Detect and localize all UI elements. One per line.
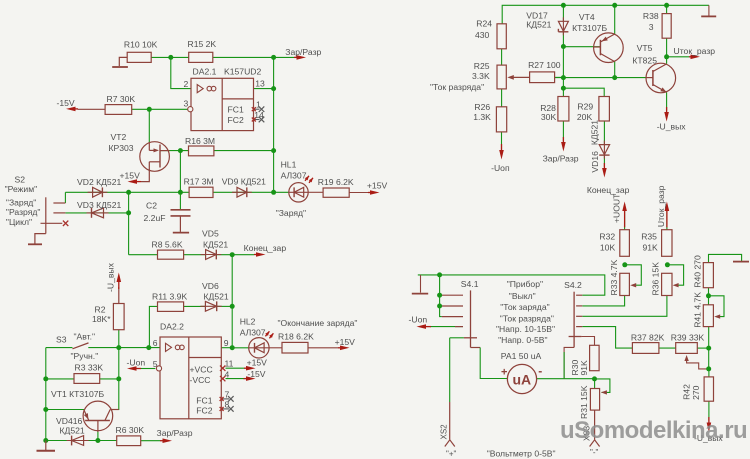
svg-text:+: + bbox=[501, 367, 507, 379]
svg-text:6: 6 bbox=[153, 338, 158, 348]
svg-text:"Ток разряда": "Ток разряда" bbox=[430, 82, 484, 92]
wire R27-VT4c-VT5b row bbox=[555, 77, 647, 79]
svg-text:R40 270: R40 270 bbox=[692, 255, 702, 288]
R36 wiper arrow bbox=[673, 283, 679, 287]
node R30-R31 bbox=[592, 376, 597, 381]
net +15V right of R19 bbox=[367, 181, 388, 195]
label S2 bbox=[5, 174, 41, 227]
node VT5 collector bbox=[664, 54, 669, 59]
svg-text:R18 6.2K: R18 6.2K bbox=[278, 332, 314, 342]
resistor R24 bbox=[475, 18, 506, 49]
wire main bus bbox=[65, 191, 289, 193]
wire S4.1 arm1 stub bbox=[440, 294, 442, 296]
svg-text:R19 6.2K: R19 6.2K bbox=[318, 177, 354, 187]
wire S4.1 arm6 bbox=[450, 337, 464, 339]
svg-text:3.3K: 3.3K bbox=[472, 71, 490, 81]
wire S3 vertical left rail bbox=[45, 348, 47, 441]
wire R36 wiper jog bbox=[667, 265, 683, 285]
wire R40 chassis bar bbox=[733, 261, 749, 263]
wire S3 left terminal bbox=[46, 347, 73, 349]
svg-text:9: 9 bbox=[224, 338, 229, 348]
wire R29 top net bbox=[563, 88, 604, 96]
svg-text:R32: R32 bbox=[599, 232, 615, 242]
label Вольтметр bbox=[487, 449, 556, 459]
resistor R7 bbox=[105, 94, 135, 114]
wire R24-R25 bbox=[501, 49, 503, 65]
resistor R41 (pot) bbox=[692, 292, 713, 328]
svg-text:1.3K: 1.3K bbox=[473, 112, 491, 122]
resistor R26 bbox=[473, 102, 506, 132]
switch S3 bbox=[56, 332, 98, 362]
resistor R19 bbox=[318, 177, 354, 197]
wire R31 bottom to XS3 bbox=[594, 410, 596, 440]
svg-text:АЛ307: АЛ307 bbox=[240, 327, 266, 337]
svg-text:VD16: VD16 bbox=[590, 151, 600, 173]
svg-text:Uток_разр: Uток_разр bbox=[656, 185, 666, 227]
wire R28 bottom bbox=[562, 121, 564, 141]
svg-text:R36 15K: R36 15K bbox=[651, 262, 661, 296]
wire VT4 collector drop bbox=[614, 62, 616, 78]
wire R2 bottom to node bbox=[118, 330, 120, 348]
wire VD6 to vertical bbox=[217, 305, 233, 307]
connector XS3 pin - bbox=[583, 425, 600, 457]
node VD17 bottom bbox=[561, 44, 566, 49]
wire right column verticals bbox=[708, 327, 710, 377]
meter PA1 50uA bbox=[501, 351, 543, 393]
svg-text:3: 3 bbox=[649, 22, 654, 32]
wire meter to R30 node bbox=[537, 378, 595, 380]
svg-text:VT4: VT4 bbox=[579, 12, 595, 22]
wire S4.1 contacts vertical bbox=[440, 275, 442, 317]
svg-text:R41 4.7K: R41 4.7K bbox=[692, 292, 702, 328]
svg-text:VT1 КТ3107Б: VT1 КТ3107Б bbox=[51, 389, 105, 399]
svg-text:-Uоп: -Uоп bbox=[491, 163, 510, 173]
svg-text:FC1: FC1 bbox=[228, 105, 244, 115]
svg-text:-: - bbox=[538, 364, 542, 378]
resistor R39 (pot) bbox=[671, 333, 705, 354]
transistor VT1 KT3107B bbox=[51, 389, 119, 432]
net Зар/Разр top bbox=[285, 47, 321, 60]
svg-text:HL1: HL1 bbox=[281, 160, 297, 170]
resistor R3 bbox=[74, 363, 103, 384]
svg-text:-15V: -15V bbox=[57, 98, 75, 108]
svg-text:"Ток заряда": "Ток заряда" bbox=[500, 302, 549, 312]
diode VD2 bbox=[77, 177, 121, 197]
wire VT2 gate vertical bbox=[148, 109, 150, 143]
net -Uon at pin5 bbox=[127, 357, 146, 371]
node S3 junctions bbox=[116, 345, 151, 350]
wire R31 top lead bbox=[594, 379, 596, 389]
svg-text:PA1 50 uA: PA1 50 uA bbox=[501, 351, 542, 361]
net -U_вых bottom bbox=[694, 417, 723, 443]
svg-text:270: 270 bbox=[691, 385, 701, 400]
svg-text:91K: 91K bbox=[643, 243, 659, 253]
svg-text:R27 100: R27 100 bbox=[528, 60, 561, 70]
op-amp DA2.1 K157UD2 bbox=[184, 67, 265, 131]
net +15V right of R18 bbox=[335, 337, 356, 350]
wire XS2 drop bbox=[449, 338, 451, 440]
svg-text:"Напр. 0-5В": "Напр. 0-5В" bbox=[498, 335, 547, 345]
diode VD16 bbox=[590, 120, 610, 173]
node S4.1 junctions bbox=[437, 272, 442, 308]
wire R25-R26 bbox=[501, 89, 503, 107]
svg-text:Зар/Разр: Зар/Разр bbox=[543, 154, 579, 164]
wire node top output vertical bbox=[273, 57, 275, 192]
resistor R36 (pot) bbox=[651, 262, 672, 296]
resistor R17 bbox=[184, 176, 214, 197]
svg-text:VD2 КД521: VD2 КД521 bbox=[77, 177, 121, 187]
resistor R8 bbox=[152, 240, 184, 260]
resistor R32 bbox=[599, 230, 629, 257]
svg-text:R37 82K: R37 82K bbox=[631, 333, 665, 343]
svg-text:+15V: +15V bbox=[335, 337, 356, 347]
svg-text:АЛ307: АЛ307 bbox=[281, 171, 307, 181]
wire Uток_разр stub bbox=[667, 56, 689, 58]
wire VD16 bottom bbox=[603, 156, 605, 167]
wire S4.1 arm2 stub bbox=[440, 305, 442, 307]
resistor R31 (pot) bbox=[579, 385, 600, 419]
svg-text:R16 3M: R16 3M bbox=[185, 136, 215, 146]
net +UOUT bbox=[611, 193, 627, 227]
wire R16 right bbox=[214, 150, 274, 152]
pin 11 cross bbox=[220, 366, 225, 371]
wire S2 Заряд jog bbox=[64, 192, 66, 203]
wire R42 bottom bbox=[708, 401, 710, 420]
svg-text:"Вольтметр 0-5В": "Вольтметр 0-5В" bbox=[487, 449, 556, 459]
svg-text:430: 430 bbox=[475, 30, 490, 40]
svg-text:"Цикл": "Цикл" bbox=[6, 217, 32, 227]
wire R6 right bbox=[141, 440, 161, 442]
svg-text:R31 15K: R31 15K bbox=[579, 385, 589, 419]
transistor VT5 KT825 bbox=[632, 43, 675, 93]
svg-text:КТ825: КТ825 bbox=[632, 56, 657, 66]
pin 8 NC bbox=[220, 406, 234, 412]
resistor R37 bbox=[631, 333, 665, 354]
node R35-R36 bbox=[665, 262, 670, 267]
svg-text:"Разряд": "Разряд" bbox=[6, 207, 41, 217]
svg-text:R42: R42 bbox=[682, 384, 692, 400]
wire R8 to VD5 bbox=[184, 254, 206, 256]
wire VD17-R28 vertical bbox=[562, 47, 564, 97]
wire R32 top lead bbox=[624, 204, 626, 230]
svg-text:HL2: HL2 bbox=[240, 317, 256, 327]
switch S2 bbox=[28, 197, 65, 244]
resistor R29 bbox=[577, 97, 610, 122]
wire VT2 drain to R16 bbox=[160, 150, 189, 152]
net +15V pin11 bbox=[244, 357, 267, 370]
svg-text:"Ток разряда": "Ток разряда" bbox=[500, 313, 554, 323]
svg-text:"Выкл": "Выкл" bbox=[509, 291, 536, 301]
net Зар/Разр mid bbox=[543, 137, 579, 164]
svg-text:"Авт.": "Авт." bbox=[74, 332, 96, 342]
svg-text:КД521: КД521 bbox=[590, 120, 600, 145]
svg-text:FC2: FC2 bbox=[196, 405, 212, 415]
svg-text:2.2uF: 2.2uF bbox=[144, 213, 166, 223]
ground bbox=[37, 441, 56, 451]
wire R19 to +15V bbox=[349, 192, 368, 194]
svg-text:"-": "-" bbox=[590, 448, 599, 457]
svg-text:R29: R29 bbox=[577, 102, 593, 112]
svg-text:R10 10K: R10 10K bbox=[124, 40, 158, 50]
wire VD17 top lead bbox=[562, 5, 564, 21]
wire R29 to VD16 bbox=[603, 121, 605, 145]
wire R39 wiper jog bbox=[687, 358, 709, 369]
svg-text:-U_вых: -U_вых bbox=[106, 262, 116, 292]
resistor R18 bbox=[278, 332, 314, 353]
wire S4.1 wiper to meter bbox=[471, 348, 508, 379]
net -U_вых up bbox=[106, 262, 122, 303]
node R3 junctions bbox=[43, 376, 121, 381]
resistor R27 bbox=[528, 60, 561, 83]
svg-text:-15V: -15V bbox=[247, 369, 265, 379]
pin 14 NC bbox=[252, 117, 264, 123]
wire R30-R31 jog bbox=[595, 379, 610, 393]
wire R41 wiper jog bbox=[709, 296, 725, 317]
svg-text:5: 5 bbox=[153, 359, 158, 369]
node R39 junctions bbox=[706, 346, 711, 372]
svg-text:FC2: FC2 bbox=[228, 115, 244, 125]
node VT4 collector junction bbox=[561, 75, 617, 91]
wire +supply rail bbox=[502, 5, 709, 24]
svg-text:S3: S3 bbox=[56, 335, 67, 345]
wire rail chassis terminal bbox=[412, 275, 428, 294]
pin 7 NC bbox=[220, 396, 234, 402]
svg-text:11: 11 bbox=[225, 359, 234, 369]
svg-text:+VCC: +VCC bbox=[190, 364, 213, 374]
svg-text:-U_вых: -U_вых bbox=[657, 121, 687, 131]
svg-text:FC1: FC1 bbox=[196, 395, 212, 405]
svg-text:R33 4.7K: R33 4.7K bbox=[609, 259, 619, 295]
svg-text:"Ручн.": "Ручн." bbox=[71, 351, 99, 361]
svg-text:-Uon: -Uon bbox=[409, 315, 428, 325]
wire pin9 lead bbox=[221, 347, 232, 349]
svg-text:"Заряд": "Заряд" bbox=[276, 208, 306, 218]
wire R3 row bbox=[46, 378, 119, 380]
net -Uоп down bbox=[491, 144, 510, 173]
wire pin11 lead bbox=[226, 367, 245, 369]
svg-text:R38: R38 bbox=[643, 11, 659, 21]
resistor R25 (pot) bbox=[472, 61, 506, 89]
resistor R16 bbox=[185, 136, 215, 156]
resistor R2 bbox=[92, 304, 124, 330]
resistor R38 bbox=[643, 11, 671, 38]
wire R38 bottom lead bbox=[666, 38, 668, 57]
svg-text:2: 2 bbox=[184, 79, 189, 89]
svg-text:КД521: КД521 bbox=[204, 291, 229, 301]
op-amp DA2.2 (second half) bbox=[153, 321, 234, 419]
svg-text:R35: R35 bbox=[641, 232, 657, 242]
resistor R11 bbox=[152, 291, 187, 311]
node R32-R33 bbox=[622, 262, 627, 267]
svg-text:КТ3107Б: КТ3107Б bbox=[572, 23, 607, 33]
net Uток_разр bbox=[674, 46, 716, 59]
chassis terminal at R10 bbox=[112, 57, 128, 67]
diode VD5 bbox=[201, 229, 229, 260]
wire VD3 row bbox=[65, 212, 128, 214]
svg-text:КР303: КР303 bbox=[109, 143, 134, 153]
svg-text:R6 30K: R6 30K bbox=[116, 425, 145, 435]
wire VT2 drain down to bus bbox=[179, 151, 181, 193]
wire R35 top lead bbox=[666, 204, 668, 230]
node VD6 junction bbox=[230, 304, 235, 309]
wire pin5 lead bbox=[141, 368, 156, 370]
wire VT5 emitter down bbox=[666, 92, 668, 110]
svg-text:VD3 КД521: VD3 КД521 bbox=[77, 200, 121, 210]
switch S4.2 bbox=[564, 280, 582, 347]
wire R27 right bbox=[555, 76, 564, 78]
svg-text:R39 33K: R39 33K bbox=[671, 333, 705, 343]
wire S4.2 arm3 to R36 bbox=[582, 296, 667, 317]
wire R38 top lead bbox=[666, 5, 668, 13]
svg-text:18K*: 18K* bbox=[92, 314, 111, 324]
svg-text:VT5: VT5 bbox=[637, 43, 653, 53]
wire bottom bus VD4 bbox=[46, 440, 117, 442]
svg-text:30K: 30K bbox=[541, 112, 557, 122]
resistor R35 bbox=[641, 230, 672, 257]
svg-text:VD9 КД521: VD9 КД521 bbox=[222, 176, 266, 186]
wire VD5 to Конец_зар bbox=[216, 254, 254, 256]
svg-text:R26: R26 bbox=[474, 102, 490, 112]
wire HL2 to R18 bbox=[269, 347, 282, 349]
svg-text:КД521: КД521 bbox=[203, 240, 228, 250]
net Конец_зар bbox=[244, 243, 287, 257]
diode VD6 bbox=[200, 281, 228, 311]
svg-text:"Заряд": "Заряд" bbox=[6, 197, 36, 207]
svg-text:S4.1: S4.1 bbox=[461, 279, 479, 289]
net -15V left bbox=[57, 98, 79, 111]
wire S4.2 wiper drop bbox=[564, 347, 574, 378]
svg-text:91K: 91K bbox=[579, 360, 589, 376]
resistor R42 bbox=[682, 377, 714, 401]
svg-text:Конец_зар: Конец_зар bbox=[244, 243, 287, 253]
R41 wiper arrow bbox=[714, 314, 720, 318]
svg-text:R7 30K: R7 30K bbox=[107, 94, 136, 104]
wire pin2 net bbox=[171, 57, 191, 88]
svg-text:10K: 10K bbox=[600, 242, 616, 252]
svg-text:R8 5.6K: R8 5.6K bbox=[152, 240, 183, 250]
svg-text:K157UD2: K157UD2 bbox=[224, 67, 261, 77]
wire VT5 collector bbox=[666, 57, 668, 64]
wire pin4 lead bbox=[226, 378, 245, 380]
svg-text:VD5: VD5 bbox=[202, 229, 219, 239]
wire R7 to pin3 bbox=[132, 108, 189, 110]
node bus junctions bbox=[126, 190, 276, 216]
svg-text:+UOUT: +UOUT bbox=[611, 193, 621, 223]
wire R39 right bbox=[697, 347, 708, 349]
wire Конец_зар vertical bbox=[231, 255, 233, 348]
wire VD17 bottom lead bbox=[562, 33, 564, 47]
wire VD2-VD3 vertical bbox=[128, 192, 130, 254]
diode VD4 bbox=[56, 416, 89, 445]
svg-text:7: 7 bbox=[225, 389, 230, 399]
wire VT4 emitter up bbox=[614, 5, 616, 34]
svg-text:Uток_разр: Uток_разр bbox=[674, 46, 716, 56]
wire R26 bottom bbox=[501, 132, 503, 150]
wire S4.2 arm4 to R37 bbox=[582, 327, 632, 349]
svg-text:R25: R25 bbox=[474, 61, 490, 71]
node pin9 junction bbox=[230, 345, 235, 350]
svg-text:DA2.2: DA2.2 bbox=[160, 321, 184, 331]
wire R33 wiper jog bbox=[625, 265, 642, 285]
svg-text:"Режим": "Режим" bbox=[5, 184, 38, 194]
transistor VT2 KP303 bbox=[109, 132, 170, 182]
node VT2 drain junction bbox=[178, 148, 276, 153]
svg-text:R3 33K: R3 33K bbox=[75, 363, 104, 373]
wire R11 left leg bbox=[149, 306, 157, 347]
svg-text:uSomodelkina.ru: uSomodelkina.ru bbox=[560, 417, 747, 444]
svg-text:+15V: +15V bbox=[120, 170, 141, 180]
resistor R10 bbox=[124, 40, 158, 63]
svg-text:S4.2: S4.2 bbox=[564, 280, 582, 290]
wire R18 to +15V bbox=[308, 347, 338, 349]
wire R10-R15 top net bbox=[151, 56, 189, 58]
svg-text:Конец_зар: Конец_зар bbox=[587, 185, 630, 195]
R39 wiper arrow bbox=[684, 355, 688, 361]
svg-text:13: 13 bbox=[255, 79, 265, 89]
wire R37-R39 bbox=[659, 347, 676, 349]
diode VD17 bbox=[526, 11, 568, 36]
wire R15 right to Зар/Разр bbox=[213, 56, 294, 58]
svg-text:+15V: +15V bbox=[367, 181, 388, 191]
node VT1 junctions bbox=[43, 407, 100, 443]
svg-text:-VCC: -VCC bbox=[190, 375, 211, 385]
wire R30 top link bbox=[581, 337, 594, 346]
wire VT1 emitter row bbox=[46, 409, 84, 411]
svg-text:VT2: VT2 bbox=[111, 132, 127, 142]
LED HL1 bbox=[276, 160, 313, 219]
svg-text:R15 2K: R15 2K bbox=[188, 39, 217, 49]
wire meter rail bbox=[418, 275, 605, 295]
net -15V pin4 bbox=[244, 369, 266, 381]
node junction R7 bbox=[147, 107, 152, 112]
wire to R8 bbox=[129, 254, 158, 256]
svg-text:C2: C2 bbox=[146, 201, 157, 211]
svg-text:VD6: VD6 bbox=[202, 281, 219, 291]
resistor R40 bbox=[692, 255, 713, 288]
wire rail chassis bbox=[701, 5, 716, 16]
wire HL2 left bbox=[232, 347, 249, 349]
LED HL2 bbox=[240, 317, 274, 358]
resistor R33 (pot) bbox=[609, 259, 629, 295]
node R40-R41 bbox=[706, 293, 711, 298]
svg-text:"Напр. 10-15В": "Напр. 10-15В" bbox=[496, 324, 555, 334]
connector XS2 pin + bbox=[439, 424, 456, 459]
net Uток_разр vertical bbox=[656, 185, 669, 227]
svg-text:КД521: КД521 bbox=[60, 425, 85, 435]
svg-text:КД521: КД521 bbox=[526, 19, 551, 29]
wire R2 node down to VT1 collector bbox=[111, 348, 119, 410]
label Окончание заряда bbox=[278, 318, 358, 328]
resistor R30 bbox=[570, 345, 599, 375]
net -U_вых VT5 bbox=[657, 107, 687, 131]
svg-text:"+": "+" bbox=[446, 450, 457, 459]
net Конец_зар down bbox=[587, 163, 630, 195]
wire S3 to pin6 bbox=[88, 347, 160, 349]
wire R7 row bbox=[78, 108, 106, 110]
svg-text:R17 3M: R17 3M bbox=[184, 176, 214, 186]
svg-text:uA: uA bbox=[513, 372, 532, 388]
transistor VT4 KT3107B bbox=[572, 12, 623, 63]
labels switch positions bbox=[496, 279, 555, 345]
resistor R28 bbox=[540, 97, 569, 122]
node VD5 junction bbox=[230, 252, 235, 257]
diode VD3 bbox=[77, 200, 121, 218]
watermark bbox=[560, 417, 747, 444]
svg-text:3: 3 bbox=[184, 99, 189, 109]
svg-text:XS2: XS2 bbox=[439, 424, 448, 440]
svg-text:Зар/Разр: Зар/Разр bbox=[157, 428, 193, 438]
svg-text:"Окончание заряда": "Окончание заряда" bbox=[278, 318, 358, 328]
